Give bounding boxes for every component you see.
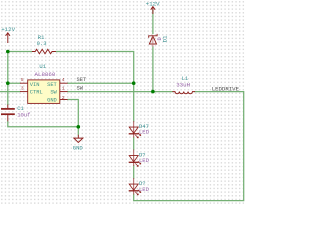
svg-text:LEDDRIVE: LEDDRIVE <box>212 85 240 92</box>
svg-text:SET: SET <box>47 82 57 88</box>
svg-text:0.3: 0.3 <box>37 40 47 47</box>
svg-text:10uf: 10uf <box>17 112 30 119</box>
svg-text:+12V: +12V <box>146 0 160 7</box>
svg-text:4: 4 <box>62 77 65 83</box>
svg-text:LED: LED <box>139 157 150 164</box>
svg-text:VIN: VIN <box>30 82 40 88</box>
svg-text:GND: GND <box>73 144 84 151</box>
svg-text:5: 5 <box>21 77 24 83</box>
svg-text:U1: U1 <box>39 63 46 70</box>
svg-text:LED: LED <box>139 129 150 136</box>
svg-text:2: 2 <box>62 95 65 101</box>
svg-text:CTRL: CTRL <box>30 90 43 96</box>
svg-text:SET: SET <box>77 77 87 83</box>
svg-text:1: 1 <box>62 85 65 91</box>
svg-text:SW: SW <box>77 85 84 91</box>
svg-text:AL8860: AL8860 <box>35 71 56 78</box>
svg-text:33uH: 33uH <box>176 82 190 89</box>
svg-text:+12V: +12V <box>1 26 15 33</box>
svg-text:GND: GND <box>47 97 57 103</box>
svg-text:SW: SW <box>50 90 57 96</box>
svg-text:3: 3 <box>21 85 24 91</box>
svg-text:LED: LED <box>139 186 150 193</box>
